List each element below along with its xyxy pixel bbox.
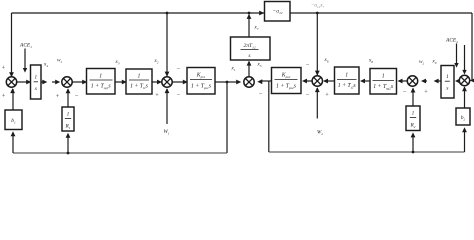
- block governor 1/(1+Tsg1 s): [87, 69, 116, 95]
- sign + (b1 input to S1): [2, 93, 6, 100]
- label x5: [257, 62, 262, 68]
- sign - (x8 tie input to S5): [306, 62, 310, 69]
- svg-text:+: +: [325, 92, 329, 99]
- block power system Kps1/(1+Tps1 s): [187, 68, 215, 95]
- svg-text:+: +: [2, 93, 6, 100]
- svg-text:1: 1: [345, 73, 348, 79]
- wire: Kps2 output x5 into tie summer S4: [257, 79, 271, 84]
- wire: turbine x2 into power summer S3: [152, 80, 162, 85]
- block bias b2: [456, 108, 470, 125]
- sign - (x5 input to S4): [259, 91, 263, 98]
- wire: x7 up from 2piT12 block to top line: [247, 12, 252, 37]
- sign + (w2 input to S6): [424, 89, 428, 96]
- svg-text:−: −: [259, 91, 263, 98]
- wire: drop from top line into area-2 power summer: [315, 12, 320, 77]
- summing junction S2 governor (area 1): [62, 77, 72, 87]
- svg-text:1 + Tps2s: 1 + Tps2s: [276, 84, 297, 90]
- wire: S1 to integrator 1/s area 1: [17, 80, 31, 85]
- svg-text:−: −: [177, 66, 181, 73]
- svg-text:1 + Tsg1s: 1 + Tsg1s: [91, 84, 112, 90]
- wire: bottom line up into b2: [462, 127, 467, 152]
- label x8: [368, 58, 373, 64]
- block turbine 1/(1+Tt1 s): [126, 69, 152, 94]
- block integrator 1/s area 1: [31, 65, 42, 99]
- sign + (tie input to S1): [2, 65, 6, 72]
- wire: area-1 bottom feedback run: [13, 152, 227, 154]
- wire: w2 into S6: [421, 79, 427, 84]
- label -a12x7 on top line: [311, 3, 325, 9]
- summing junction S4 tie-line comparator: [244, 77, 254, 87]
- block droop 1/R1: [62, 107, 74, 131]
- label x6: [324, 57, 329, 63]
- block power system Kps2/(1+Tps2 s): [272, 68, 302, 94]
- wire: top line right of -a12 block: [290, 12, 473, 14]
- block tie-line 2piT12/s: [231, 37, 271, 60]
- label x1: [231, 66, 236, 72]
- svg-text:s: s: [446, 86, 448, 92]
- wire: right border drop into ACE2 summer: [470, 13, 474, 83]
- wire: integrator-2 output x9 node arrow: [434, 79, 441, 84]
- wire: ACE2 input drop into S7: [462, 45, 466, 75]
- label w1: [57, 58, 62, 64]
- svg-text:−: −: [306, 62, 310, 69]
- label x4: [43, 62, 48, 68]
- label x7: [254, 25, 259, 31]
- wire: 1/R2 output up into area-2 governor summer: [411, 88, 416, 107]
- wire: W2 disturbance into area-2 power summer: [315, 87, 320, 118]
- block integrator 1/s area 2: [441, 66, 454, 99]
- wire: b2 output up into ACE2 summer: [462, 86, 467, 108]
- svg-text:s: s: [248, 53, 250, 59]
- summing junction S6 governor (area 2): [407, 76, 417, 86]
- svg-text:1: 1: [34, 75, 37, 81]
- svg-text:1: 1: [99, 74, 102, 80]
- svg-text:+: +: [56, 93, 60, 100]
- wire: W1 disturbance into power summer: [165, 88, 170, 124]
- svg-text:s: s: [35, 86, 37, 92]
- wire: S2 to governor block: [72, 80, 87, 85]
- wire: x1 branch down right of Kps1: [226, 81, 229, 153]
- wire: 1/R1 output up into governor summer: [66, 88, 71, 107]
- sign - (x7 tie input to S3): [177, 66, 181, 73]
- wire: ACE2 summer S7 to integrator-2: [455, 79, 460, 83]
- wire: b1 output up into ACE1 summer: [10, 88, 15, 110]
- svg-text:1 + Tt2s: 1 + Tt2s: [338, 83, 357, 89]
- svg-text:+: +: [155, 92, 159, 99]
- label x3: [115, 59, 120, 65]
- svg-text:−: −: [403, 89, 407, 96]
- svg-text:1 + Tsg2s: 1 + Tsg2s: [373, 84, 394, 90]
- sign + (x6 input to S5): [325, 92, 329, 99]
- wire: governor summer S6 to governor-2: [398, 79, 408, 84]
- wire: area-2 bottom feedback run: [269, 151, 465, 153]
- wire: x5 branch down left of Kps2: [268, 81, 270, 152]
- summing junction S7 ACE2 (area 2): [459, 75, 469, 85]
- wire: bottom line up into 1/R2: [411, 132, 416, 153]
- sign - (W2 input to S5): [306, 92, 310, 99]
- sign + (w1 input to S2): [56, 93, 60, 100]
- svg-text:−: −: [306, 92, 310, 99]
- wire: integrator output x4 node arrow: [41, 80, 47, 85]
- sign + (x2 input to S3): [155, 92, 159, 99]
- label x2: [154, 58, 159, 64]
- wire: governor to turbine x3: [115, 80, 127, 85]
- wire: turbine-2 output x6 into S5: [323, 79, 335, 84]
- wire: S3 to power system block: [172, 80, 188, 85]
- svg-text:1: 1: [412, 111, 415, 117]
- wire: bottom line up into 1/R1: [66, 133, 71, 155]
- wire: left drop from top line into ACE1 summer: [9, 13, 14, 78]
- label w2: [419, 59, 424, 65]
- svg-text:−: −: [177, 92, 181, 99]
- svg-text:1: 1: [67, 112, 70, 118]
- svg-text:1 + Tt1s: 1 + Tt1s: [130, 84, 149, 90]
- wire: area-2 power summer S5 to Kps2: [302, 79, 312, 84]
- block gain -a12: [265, 2, 291, 22]
- label ACE1 with pointer arrow: [19, 43, 32, 73]
- block turbine 1/(1+Tt2 s): [335, 67, 360, 94]
- sign - (W1 input to S3): [177, 92, 181, 99]
- label W1: [164, 129, 170, 135]
- svg-text:1: 1: [138, 74, 141, 80]
- svg-text:+: +: [2, 65, 6, 72]
- svg-text:1 + Tps1s: 1 + Tps1s: [191, 84, 212, 90]
- label ACE2 with pointer arrow: [445, 38, 459, 68]
- wire: governor-2 to turbine-2 x8: [360, 79, 370, 84]
- wire: tie-line signal x7 top horizontal run: [12, 12, 265, 14]
- label W2: [317, 130, 323, 136]
- summing junction S1 ACE1 (area 1): [6, 77, 16, 87]
- sign - (1/R1 input to S2): [75, 93, 79, 100]
- wire: bottom line up into b1: [11, 131, 16, 153]
- wire: drop from top line into area-1 power summer: [165, 12, 170, 78]
- wire: x7 arrow into -a12 block: [259, 11, 264, 16]
- wire: x1 output to tie summer S4: [215, 80, 241, 85]
- sign - (1/R2 input to S6): [403, 89, 407, 96]
- wire: tie summer output up into 2piT12 block: [247, 61, 252, 77]
- svg-text:−: −: [75, 93, 79, 100]
- svg-text:+: +: [424, 89, 428, 96]
- block governor 1/(1+Tsg2 s): [370, 69, 397, 95]
- block droop 1/R2: [406, 106, 420, 131]
- label x9: [432, 59, 437, 65]
- wire: w1 into governor summer S2: [52, 80, 60, 85]
- summing junction S3 power system (area 1): [162, 77, 172, 87]
- svg-text:1: 1: [382, 74, 385, 80]
- block bias b1: [5, 110, 22, 130]
- summing junction S5 power system (area 2): [312, 76, 322, 86]
- svg-text:1: 1: [446, 74, 449, 80]
